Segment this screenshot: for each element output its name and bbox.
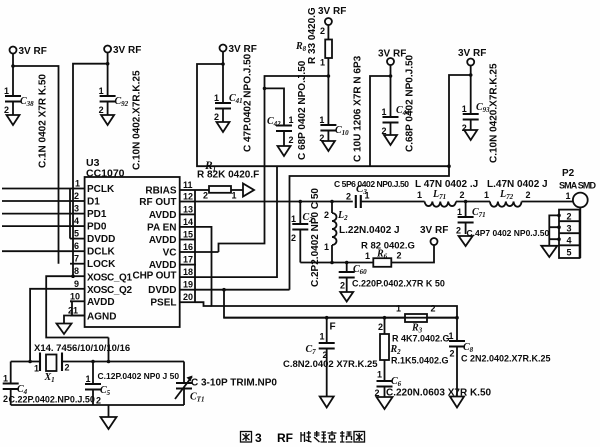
pin 10 AVDD [70, 291, 115, 308]
wire pin2 to left edge [2, 200, 70, 202]
power 3V RF (above C44) [378, 49, 406, 66]
pin 2 D1 [70, 191, 100, 208]
svg-text:2: 2 [460, 190, 465, 200]
svg-text:6: 6 [74, 241, 79, 251]
wire RF OUT main line [195, 201, 353, 203]
svg-text:1: 1 [291, 214, 296, 224]
svg-text:2: 2 [526, 190, 531, 200]
pin 16 VC [163, 242, 195, 259]
svg-text:C.220N.0603 X7R K.50: C.220N.0603 X7R K.50 [386, 388, 492, 399]
pin 1 PCLK [70, 179, 115, 196]
svg-text:2: 2 [4, 105, 9, 115]
svg-text:LOCK: LOCK [87, 259, 116, 270]
svg-text:VC: VC [163, 248, 177, 259]
svg-text:1: 1 [232, 191, 237, 201]
wire P2 shield pins to ground [549, 215, 559, 245]
wire [456, 201, 490, 203]
svg-text:DVDD: DVDD [87, 234, 115, 245]
node junction [221, 62, 225, 66]
node junction pin8 line / crystal riser [107, 360, 111, 364]
node junction shield pins [557, 214, 561, 218]
svg-text:C 3-10P TRIM.NP0: C 3-10P TRIM.NP0 [191, 378, 277, 389]
svg-text:3V RF: 3V RF [420, 225, 448, 236]
power 3V RF (top-left #1) [10, 46, 47, 57]
capacitor C42 [267, 60, 308, 160]
svg-text:5: 5 [74, 229, 79, 239]
svg-text:21: 21 [68, 306, 78, 316]
capacitor C2 [291, 188, 321, 287]
node junction R2 [383, 316, 387, 320]
svg-text:2: 2 [65, 363, 70, 373]
inductor L2 [324, 202, 400, 263]
svg-text:3V RF: 3V RF [19, 46, 47, 57]
trimmer capacitor CT1 [175, 362, 277, 406]
power 3V RF (top-left #2) [104, 45, 141, 56]
svg-text:C 47P.0402 NPO.J.50: C 47P.0402 NPO.J.50 [243, 53, 254, 152]
capacitor C10 [319, 55, 363, 162]
svg-text:3V RF: 3V RF [458, 48, 486, 59]
svg-text:7: 7 [74, 254, 79, 264]
svg-text:10: 10 [70, 291, 80, 301]
left pin number box column [69, 189, 71, 239]
svg-text:1: 1 [457, 207, 462, 217]
svg-text:9: 9 [74, 279, 79, 289]
node junction C2 [299, 200, 303, 204]
svg-text:17: 17 [183, 255, 193, 265]
svg-text:F: F [330, 322, 336, 333]
power 3V RF (above C41) [220, 44, 257, 55]
node junction [106, 62, 110, 66]
wire pin10 [70, 301, 72, 315]
svg-text:2: 2 [456, 226, 461, 236]
svg-text:CC1070: CC1070 [86, 168, 125, 180]
pin 14 PA EN [147, 217, 195, 234]
svg-text:1: 1 [449, 331, 454, 341]
svg-text:4: 4 [74, 216, 79, 226]
pin 12 RF OUT [139, 192, 195, 209]
ground [450, 397, 464, 408]
svg-text:1: 1 [484, 190, 489, 200]
wire [12, 53, 14, 96]
svg-text:RF: RF [277, 431, 293, 445]
IC U3 CC1070 [85, 157, 180, 327]
svg-text:1: 1 [3, 374, 8, 384]
wire [390, 65, 392, 117]
svg-text:12: 12 [183, 192, 193, 202]
svg-text:C 10U 1206 X7R N 6P3: C 10U 1206 X7R N 6P3 [353, 55, 364, 162]
svg-text:2: 2 [450, 349, 455, 359]
right pin number box column [194, 190, 196, 302]
svg-text:1: 1 [34, 364, 39, 374]
svg-text:CHP OUT: CHP OUT [133, 270, 177, 281]
node junction C71 [464, 200, 468, 204]
svg-text:3: 3 [74, 204, 79, 214]
resistor R3 [392, 304, 450, 344]
wire crystal riser [108, 338, 110, 362]
pin 19 DVDD [148, 280, 195, 297]
svg-text:PA EN: PA EN [147, 222, 176, 233]
bottom network line2 with R3 [224, 317, 457, 319]
ground [278, 146, 291, 156]
ground [541, 246, 557, 257]
resistor R6 [361, 241, 434, 267]
svg-text:1: 1 [396, 304, 401, 314]
svg-text:14: 14 [183, 217, 193, 227]
svg-text:1: 1 [319, 115, 324, 125]
wire 3VRF rail to the right network [197, 64, 449, 166]
svg-text:3V RF: 3V RF [378, 49, 406, 60]
svg-text:C.8N2.0402 X7R.K.25: C.8N2.0402 X7R.K.25 [283, 359, 378, 370]
wire pin1 to left edge [2, 188, 70, 190]
svg-text:5: 5 [567, 248, 572, 258]
capacitor C7 [283, 318, 378, 397]
node junction L2 bottom [330, 261, 334, 265]
ground [7, 115, 20, 125]
svg-text:C.4P7 0402 NP0.J.50: C.4P7 0402 NP0.J.50 [467, 228, 550, 238]
svg-text:2: 2 [397, 251, 402, 261]
svg-text:X14. 7456/10/10/10/16: X14. 7456/10/10/10/16 [34, 343, 130, 354]
ground [101, 115, 114, 125]
svg-text:AVDD: AVDD [87, 297, 115, 308]
wire crystal bottom rail [11, 404, 184, 406]
wire pin21 AGND [64, 316, 85, 324]
capacitor C6 [375, 376, 492, 399]
node junction R8/C10 [327, 74, 331, 78]
svg-text:1: 1 [320, 332, 325, 342]
svg-text:C.2P2.0402 NP0 C 50: C.2P2.0402 NP0 C 50 [310, 188, 321, 287]
node junction [389, 74, 393, 78]
wire to rail x449 [290, 75, 471, 290]
ground [377, 397, 393, 409]
wire [470, 65, 472, 114]
svg-text:DVDD: DVDD [148, 285, 176, 296]
svg-text:C 5P6 0402 NP0.J.50: C 5P6 0402 NP0.J.50 [334, 179, 409, 189]
node junction C5 [91, 360, 95, 364]
capacitor C44 [382, 54, 416, 152]
svg-text:D1: D1 [87, 197, 100, 208]
svg-text:20: 20 [183, 292, 193, 302]
ground [464, 130, 477, 140]
svg-text:C.12P.0402 NP0 J 50: C.12P.0402 NP0 J 50 [98, 371, 180, 381]
ground [459, 236, 473, 246]
svg-text:2: 2 [74, 191, 79, 201]
svg-text:SMA SMD: SMA SMD [559, 181, 597, 191]
capacitor C5 [85, 362, 179, 406]
svg-text:3: 3 [567, 224, 572, 234]
resistor R8 [295, 7, 332, 67]
wire [283, 131, 285, 146]
pin 18 CHP OUT [133, 267, 196, 281]
wire [12, 102, 14, 116]
svg-text:R 82 0402.G: R 82 0402.G [361, 241, 415, 252]
node junction C8 [455, 316, 459, 320]
svg-text:2: 2 [289, 135, 294, 145]
svg-text:15: 15 [183, 230, 193, 240]
svg-text:1: 1 [214, 93, 219, 103]
wire node to vertical A [219, 76, 329, 252]
svg-text:AVDD: AVDD [149, 210, 177, 221]
svg-text:C.10N 0402.X7R.K.25: C.10N 0402.X7R.K.25 [132, 70, 143, 170]
svg-text:3V RF: 3V RF [318, 6, 346, 17]
svg-text:1: 1 [566, 191, 571, 201]
svg-text:1: 1 [377, 370, 382, 380]
pin 11 RBIAS [145, 180, 195, 197]
capacitor C41 [214, 53, 254, 152]
arrow port symbol at R1 [243, 184, 254, 197]
pin 6 DCLK [70, 241, 116, 258]
pin 20 PSEL [150, 292, 195, 309]
wire [222, 109, 224, 123]
pin 13 AVDD [149, 204, 195, 221]
svg-text:C.22P.0402.NP0.J.50: C.22P.0402.NP0.J.50 [9, 395, 95, 405]
node junction C60 [345, 261, 349, 265]
node junction rail449 with 3VRF line [447, 164, 451, 168]
svg-text:XOSC_Q2: XOSC_Q2 [87, 285, 132, 296]
ground [384, 135, 397, 145]
svg-text:16: 16 [183, 242, 193, 252]
svg-text:1: 1 [75, 179, 80, 189]
node junction rail B on pin8 [71, 274, 75, 278]
svg-text:1: 1 [86, 374, 91, 384]
power 3V RF (above R8) [318, 6, 346, 25]
wire pin17 stub [195, 264, 196, 266]
power 3V RF (above C93) [458, 48, 486, 66]
svg-text:1: 1 [289, 115, 294, 125]
wire to rail B [73, 64, 108, 277]
wire pin14 down to bottom line [195, 227, 457, 318]
svg-text:R 82K 0420.F: R 82K 0420.F [197, 170, 259, 181]
svg-text:RBIAS: RBIAS [145, 186, 176, 197]
pin 17 AVDD [149, 255, 195, 272]
capacitor C71 [456, 202, 549, 239]
capacitor C4 [3, 362, 95, 406]
wire pin20 to rail x289.5 (drawn with C93 group above) [195, 302, 212, 306]
svg-text:XOSC_Q1: XOSC_Q1 [87, 273, 132, 284]
resistor R1 (RBIAS) [195, 160, 259, 201]
wire [327, 58, 329, 125]
svg-text:P2: P2 [562, 168, 575, 179]
svg-text:2: 2 [291, 233, 296, 243]
wire [327, 131, 329, 142]
pin 21 AGND [68, 306, 116, 323]
node junction [469, 73, 473, 77]
svg-text:2: 2 [378, 322, 383, 332]
inductor L71 [415, 179, 478, 207]
svg-text:2: 2 [340, 281, 345, 291]
pin 4 PD0 [70, 216, 107, 233]
resistor R2 [377, 318, 449, 381]
svg-text:C.10N 0420.X7R.K.25: C.10N 0420.X7R.K.25 [489, 63, 500, 163]
capacitor C92 [99, 70, 143, 170]
power 3V RF (R6) [420, 225, 448, 245]
svg-text:AVDD: AVDD [149, 235, 177, 246]
wire pin18 to rail x277 up to 3VRF line [195, 166, 277, 277]
wire pin3 to left edge [2, 213, 70, 215]
svg-text:1: 1 [417, 190, 422, 200]
svg-text:2: 2 [324, 210, 329, 220]
caption 图3 RF... [241, 432, 252, 443]
svg-text:3V RF: 3V RF [229, 44, 257, 55]
wire to P2 [522, 201, 574, 203]
wire pin9 down to crystal rail [30, 289, 70, 362]
pin 5 DVDD [70, 229, 115, 246]
svg-text:18: 18 [183, 267, 193, 277]
wire [470, 120, 472, 131]
svg-text:C.1N 0402 X7R K.50: C.1N 0402 X7R K.50 [38, 74, 49, 168]
svg-text:PCLK: PCLK [87, 184, 115, 195]
svg-text:PSEL: PSEL [150, 298, 176, 309]
wire pin4 to left edge [2, 225, 70, 227]
svg-text:AGND: AGND [87, 312, 116, 323]
svg-text:C 68P 0402 NPO.J.50: C 68P 0402 NPO.J.50 [297, 60, 308, 160]
ground (crystal network) [108, 405, 110, 417]
pin 15 AVDD [149, 230, 195, 247]
ground [340, 292, 353, 302]
svg-text:2: 2 [203, 191, 208, 201]
svg-text:C 2N2.0402.X7R.K.25: C 2N2.0402.X7R.K.25 [461, 354, 551, 364]
svg-text:11: 11 [183, 180, 193, 190]
svg-text:C.68P 0402 NP0.J.50: C.68P 0402 NP0.J.50 [405, 54, 416, 152]
connector P2 SMA SMD [559, 168, 597, 258]
svg-text:R 33 0420.G: R 33 0420.G [307, 7, 318, 64]
ground (AGND) [57, 324, 72, 335]
svg-text:2: 2 [567, 212, 572, 222]
svg-text:1: 1 [4, 86, 9, 96]
wire [107, 102, 109, 116]
svg-text:4: 4 [567, 236, 572, 246]
svg-text:1: 1 [324, 242, 329, 252]
svg-text:PD0: PD0 [87, 222, 107, 233]
svg-text:C.220P.0402.X7R K 50: C.220P.0402.X7R K 50 [352, 279, 445, 289]
svg-text:13: 13 [183, 204, 193, 214]
svg-text:2: 2 [214, 112, 219, 122]
ground [217, 122, 230, 132]
svg-text:L.22N.0402 J: L.22N.0402 J [339, 225, 400, 236]
capacitor C60 [339, 263, 445, 293]
svg-text:2: 2 [320, 26, 325, 36]
wire to rail A [13, 66, 59, 264]
svg-text:1: 1 [320, 58, 325, 68]
node junction C7 [325, 316, 329, 320]
svg-text:3V RF: 3V RF [113, 45, 141, 56]
svg-text:DCLK: DCLK [87, 247, 116, 258]
wire pin19 down to bottom line2 [195, 289, 290, 291]
node junction pin9/crystal rail [28, 360, 32, 364]
svg-text:2: 2 [431, 304, 436, 314]
wire pin6 to left edge [2, 250, 70, 252]
svg-text:2: 2 [96, 396, 101, 406]
svg-text:1: 1 [99, 86, 104, 96]
svg-text:2: 2 [3, 394, 8, 404]
wire [107, 52, 109, 96]
svg-text:R 4K7.0402.G: R 4K7.0402.G [392, 334, 450, 344]
svg-text:1: 1 [462, 104, 467, 114]
svg-text:RF OUT: RF OUT [139, 197, 176, 208]
pin 3 PD1 [70, 204, 107, 221]
capacitor C93 [462, 63, 500, 163]
wire pin8 to crystal CT1 [46, 276, 108, 337]
wire to rail x370 [370, 76, 391, 166]
svg-text:2: 2 [346, 192, 351, 202]
capacitor C38 [4, 74, 49, 168]
svg-text:PD1: PD1 [87, 209, 107, 220]
svg-text:2: 2 [99, 105, 104, 115]
svg-text:L.47N 0402 J: L.47N 0402 J [487, 179, 548, 190]
svg-text:1: 1 [382, 107, 387, 117]
crystal X1 [11, 343, 184, 384]
capacitor C8 [449, 318, 551, 397]
wire L2 bottom line [300, 262, 373, 264]
capacitor C3 (series) [334, 179, 425, 208]
wire [222, 51, 224, 103]
svg-text:19: 19 [183, 280, 193, 290]
pin 9 XOSC_Q2 [70, 279, 132, 296]
svg-text:R.1K5.0402.G: R.1K5.0402.G [391, 356, 449, 366]
node junction [11, 64, 15, 68]
pin 8 XOSC_Q1 [70, 266, 132, 284]
svg-text:3: 3 [255, 431, 262, 445]
wire [390, 123, 392, 136]
inductor L72 [484, 179, 548, 207]
wire to C42 [265, 88, 285, 125]
svg-text:L 47N 0402 .J: L 47N 0402 .J [415, 179, 478, 190]
node junction C42 branch [263, 87, 267, 91]
wire [327, 25, 329, 40]
ground [322, 141, 335, 151]
node junction L2 [330, 200, 334, 204]
svg-text:8: 8 [74, 266, 79, 276]
ground [320, 397, 334, 408]
svg-text:1: 1 [365, 251, 370, 261]
pin 7 LOCK [70, 254, 116, 271]
wire pin16 to vertical A via jog [195, 251, 219, 253]
